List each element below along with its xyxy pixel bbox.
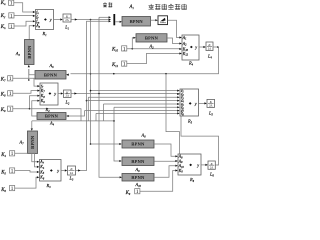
arrowhead [204,102,206,104]
arrowhead [37,85,39,87]
arrowhead [177,112,179,114]
wire [91,90,178,92]
arrowhead [37,95,39,97]
arrowhead [33,11,35,13]
svg-text:BPNN: BPNN [30,135,35,149]
BPNN box H5-A8 [122,140,154,148]
arrowhead [37,171,39,173]
wire [155,160,176,162]
junction [86,100,88,102]
wire [166,74,180,154]
wire [91,20,120,145]
arrowhead [66,74,68,76]
constant-1 box for K_n [9,23,14,30]
wire [14,14,33,16]
junction [28,79,30,81]
svg-text:BPNN: BPNN [145,36,159,41]
wire [32,154,37,162]
arrowhead [133,37,135,39]
arrowhead [78,169,80,171]
arrowhead [33,20,35,22]
arrowhead [177,106,179,108]
svg-text:BPNN: BPNN [27,45,32,59]
junction [98,93,100,95]
BPNN box H2-A4 [37,113,66,120]
wire [104,104,178,121]
arrowhead [33,25,35,27]
label zongxian(bus) (chinese) [103,2,112,7]
junction [113,120,115,122]
junction [29,108,31,110]
junction [90,143,92,145]
BPNN box H1-A6 [35,71,66,80]
wire [71,93,180,95]
arrowhead [119,143,121,145]
junction [113,73,115,75]
wire [127,48,180,50]
arrowhead [177,110,179,112]
arrowhead [179,36,181,38]
arrowhead [179,42,181,44]
svg-text:y: y [194,101,197,106]
constant-1 box for K_8 [8,91,13,98]
wire [132,38,133,49]
wire [199,46,204,48]
quantizer L1 [63,14,71,22]
neuron block R1 [35,10,53,30]
neuron block R4 [182,35,199,60]
arrowhead [175,155,177,157]
arrowhead [203,46,205,48]
BPNN box H4-A2 [136,34,167,42]
wire [30,109,82,121]
svg-text:BPNN: BPNN [44,72,58,77]
wire [29,69,35,75]
svg-text:2Δ: 2Δ [65,18,69,22]
svg-text:BPNN: BPNN [45,114,59,119]
arrowhead [177,96,179,98]
wire [168,20,180,37]
svg-text:y: y [56,168,59,173]
wire [127,54,180,64]
arrowhead [177,90,179,92]
arrowhead [65,169,67,171]
arrowhead [120,21,122,23]
svg-text:BPNN: BPNN [131,175,145,180]
svg-text:BPNN: BPNN [130,19,144,24]
label dengyuzhichuliqi (chinese) [149,4,187,9]
wire [71,19,109,21]
BPNN box H6-A9 [122,157,154,166]
bus bar [113,14,115,25]
arrowhead [28,65,30,67]
wire [32,113,37,117]
wire [13,91,38,94]
junction [90,90,92,92]
svg-text:BPNN: BPNN [131,159,145,164]
svg-text:1: 1 [11,186,14,192]
arrowhead [60,18,62,20]
wire [115,21,119,23]
wire [96,113,177,121]
junction [165,73,167,75]
arrowhead [37,161,39,163]
wire [15,171,37,173]
junction [90,19,92,21]
constant-1 box for K_9 [8,106,13,113]
wire [181,116,219,165]
constant-1 box for K_u [9,0,14,7]
svg-text:y: y [194,45,197,50]
svg-text:y: y [196,162,199,167]
BPNN box V2-A7 (vertical) [28,131,38,154]
wire [32,120,114,122]
wire [31,121,33,128]
quantizer L2 [64,90,72,98]
wire [99,16,109,18]
svg-text:2Δ: 2Δ [66,94,70,98]
neuron block R6 [178,154,201,175]
wire [151,19,156,21]
arrowhead [175,160,177,162]
wire [114,106,177,108]
arrowhead [37,90,39,92]
svg-text:2Δ: 2Δ [210,165,214,169]
arrowhead [109,16,111,18]
svg-text:y: y [49,17,52,22]
quantizer L4 [206,42,213,51]
wire [13,96,38,109]
arrowhead [177,93,179,95]
BPNN box V1-A3 (vertical) [25,40,35,65]
svg-text:1: 1 [10,24,13,30]
arrowhead [177,100,179,102]
arrowhead [37,166,39,168]
arrowhead [33,15,35,17]
arrowhead [109,20,111,22]
junction [132,48,134,50]
wire [88,97,177,121]
junction [217,46,219,48]
arrowhead [155,19,157,21]
arrowhead [179,48,181,50]
constant-1 box for K_y [9,13,14,19]
arrowhead [66,115,68,117]
quantizer L6 [208,161,215,169]
svg-text:1: 1 [11,151,14,157]
arrowhead [31,128,33,130]
constant-1 box for K_6 [10,186,15,193]
wire [32,101,38,113]
neuron block R5 [180,89,199,117]
arrowhead [205,164,207,166]
svg-text:2Δ: 2Δ [208,47,212,51]
arrowhead [175,165,177,167]
junction [90,73,92,75]
wire [201,164,206,166]
neuron block R3 [39,160,61,182]
quantizer L5 [207,99,215,107]
BPNN box H3-A1 [122,17,151,27]
arrowhead [120,176,122,178]
wire [76,21,109,170]
svg-text:1: 1 [11,168,14,174]
arrowhead [74,92,76,94]
svg-text:2Δ: 2Δ [209,103,213,107]
wire [29,26,33,40]
wire [61,170,65,172]
svg-text:BPNN: BPNN [131,142,145,147]
constant-1 box for K_5 [10,168,15,175]
wire [28,69,30,80]
wire [215,164,218,166]
wire [15,153,37,167]
wire [154,144,176,156]
arrowhead [61,92,63,94]
wire [13,78,38,86]
arrowhead [37,176,39,178]
wire [15,177,37,188]
arrowhead [177,103,179,105]
neuron block R2 [40,83,58,105]
wire [87,100,178,102]
wire [71,47,219,74]
constant-1 box for K_10 [122,46,127,53]
arrowhead [175,169,177,171]
wire [14,21,33,26]
threshold processor [158,16,168,25]
svg-text:1: 1 [10,13,13,19]
svg-text:1: 1 [136,189,139,195]
arrowhead [75,18,77,20]
wire [58,93,61,95]
arrowhead [37,100,39,102]
constant-1 box for K_0 [135,189,140,196]
quantizer L3 [68,166,76,175]
constant-1 box for K_4 [10,151,15,158]
arrowhead [66,74,68,76]
constant-1 box for K_7 [8,76,13,83]
wire [167,38,180,44]
wire [199,102,205,104]
svg-text:2Δ: 2Δ [70,171,74,175]
wire [85,110,178,112]
wire [99,17,120,177]
arrowhead [119,160,121,162]
constant-1 box for K_12 [122,61,127,68]
arrowhead [179,52,181,54]
arrowhead [109,18,111,20]
wire [114,107,119,161]
wire [154,166,176,178]
wire [54,19,61,21]
BPNN box H7-A10 [122,174,154,182]
svg-text:y: y [53,91,56,96]
wire [14,3,33,12]
wire [69,111,85,116]
wire [140,171,176,192]
